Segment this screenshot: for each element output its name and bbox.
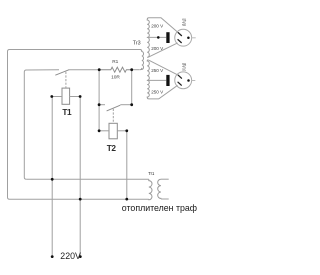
wire node A rail	[98, 70, 100, 131]
node dot S2 left	[98, 103, 101, 106]
tap upper to tube V2	[148, 60, 177, 75]
transformer Tr3 secondary S3	[147, 60, 149, 81]
wire top rail	[8, 50, 141, 52]
tap centre 2	[147, 79, 166, 81]
wire Tr1 right bottom lead	[161, 198, 169, 200]
wire right drop to 220V	[79, 97, 81, 257]
svg-text:220V: 220V	[60, 251, 81, 261]
svg-text:250 V: 250 V	[151, 90, 164, 95]
tap centre 1	[147, 36, 166, 38]
tap bottom to tube V2	[149, 85, 178, 99]
wire second rail	[24, 70, 59, 180]
switch S2 blade	[107, 105, 121, 111]
node dot T2 right	[125, 129, 128, 132]
tap top to tube V1	[149, 18, 178, 32]
node dot S2 right	[130, 103, 133, 106]
node dot R1 right	[130, 68, 133, 71]
svg-text:отоплителен траф: отоплителен траф	[122, 203, 197, 213]
transformer Tr3 secondary S4	[147, 80, 149, 99]
wire left outer rail	[8, 52, 10, 200]
svg-text:200 V: 200 V	[151, 46, 164, 51]
wire T1 right	[70, 96, 81, 98]
tube V2 cathode dot	[187, 79, 190, 82]
node dot T1 right	[79, 95, 82, 98]
tube V2 output stub	[192, 80, 196, 82]
dashed link S1-T1	[65, 72, 67, 88]
wire R1 to Tr3 primary	[132, 69, 140, 71]
svg-text:250 V: 250 V	[151, 68, 164, 73]
svg-text:T2: T2	[107, 143, 117, 153]
tube V2 envelope	[175, 72, 192, 89]
node dot bottom rail 1	[79, 198, 82, 201]
wire node B rail	[131, 70, 133, 105]
svg-text:10R: 10R	[111, 74, 120, 80]
tube V1 cathode dot	[187, 37, 190, 40]
terminal dot 220V right	[79, 255, 82, 258]
transformer Tr3 secondary S2	[147, 37, 149, 57]
switch S1 blade	[55, 70, 69, 76]
svg-text:Tr3: Tr3	[133, 41, 141, 47]
wire left drop to 220V	[51, 97, 53, 257]
dashed link S2-T2	[112, 109, 114, 123]
node dot R1 left	[98, 68, 101, 71]
node dot T1 left	[50, 95, 53, 98]
tube V2 plates	[178, 75, 182, 85]
transformer Tr3 primary	[140, 50, 144, 70]
node dot bottom rail 2	[125, 198, 128, 201]
wire T2 drop	[126, 131, 128, 200]
tap lower to tube V1	[148, 43, 177, 57]
relay coil T1	[62, 88, 70, 104]
tube V1 envelope	[175, 29, 192, 46]
node dot rail cross	[51, 178, 54, 181]
transformer Tr3 secondary S1	[147, 18, 149, 38]
node dot T2 left	[98, 129, 101, 132]
wire bottom rail	[10, 198, 149, 200]
svg-text:200 V: 200 V	[151, 23, 164, 28]
switch S2 right wire	[120, 104, 131, 106]
switch S2 left wire	[99, 104, 105, 106]
resistor R1	[99, 67, 132, 72]
wire Tr1 right top lead	[161, 178, 169, 180]
tube V1 output stub	[192, 37, 196, 39]
svg-text:R1: R1	[112, 59, 118, 65]
transformer Tr1 right winding	[158, 179, 161, 199]
svg-text:T1: T1	[62, 107, 72, 117]
capacitor C2	[166, 75, 169, 86]
capacitor C1	[166, 32, 169, 43]
wire T1 left	[52, 96, 62, 98]
tube V1 plates	[178, 33, 182, 43]
wire T2 left	[99, 130, 109, 132]
relay coil T2	[109, 123, 117, 139]
node dot centre tap 1	[157, 36, 160, 39]
svg-text:Tr1: Tr1	[148, 171, 155, 176]
transformer Tr1 left winding	[149, 179, 152, 199]
wire T2 right	[117, 130, 127, 132]
terminal dot 220V left	[51, 255, 54, 258]
wire Tr1 top lead	[26, 178, 149, 180]
wire S1 to node A	[69, 69, 100, 71]
